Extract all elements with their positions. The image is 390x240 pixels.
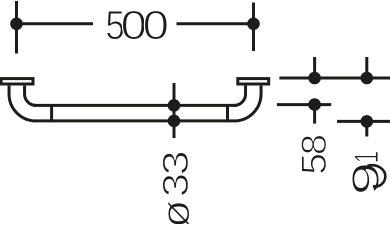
grab bar: tube inner wall right <box>234 86 245 106</box>
dimension 58: lower line <box>277 103 331 106</box>
svg-text:1: 1 <box>348 151 386 163</box>
dimension Ø33: top dot <box>168 99 181 112</box>
grab bar: tube outer wall <box>9 86 261 121</box>
svg-text:3: 3 <box>156 173 196 197</box>
dimension 500: left dot <box>10 18 23 31</box>
dimension 58: lower dot <box>308 98 321 111</box>
tick above 58 dot <box>313 57 316 78</box>
dimension 500: right segment <box>177 22 254 25</box>
dimension 500: left segment <box>17 22 94 25</box>
tick below 91 dot <box>365 121 368 136</box>
dimension 500: right dot <box>247 18 260 31</box>
tick above 91 dot <box>365 57 368 78</box>
svg-text:5: 5 <box>294 153 334 175</box>
grab bar: tube inner wall left <box>25 86 36 106</box>
grab bar: right weld joint line <box>226 104 229 122</box>
svg-text:ø: ø <box>155 200 198 224</box>
dimension Ø33: bottom dot <box>168 115 181 128</box>
dimension 91: lower line <box>337 120 390 123</box>
svg-text:0: 0 <box>143 3 169 48</box>
grab bar: right flange plate <box>238 79 269 84</box>
grab bar: left flange plate <box>1 79 33 84</box>
svg-text:3: 3 <box>155 150 196 175</box>
wall plane dot for 58 <box>308 72 321 85</box>
wall plane line (right) <box>279 77 390 80</box>
tick below 58 dot <box>313 105 316 124</box>
svg-text:8: 8 <box>294 134 333 155</box>
dimension Ø33: vertical line <box>173 83 176 138</box>
dimension 91: lower dot <box>361 115 374 128</box>
dimension 500: right extension line <box>252 3 255 52</box>
grab bar: tube top line <box>33 104 237 107</box>
label 91: tail of 9 <box>368 165 386 186</box>
wall plane dot for 91 <box>361 72 374 85</box>
grab bar: left weld joint line <box>50 104 53 122</box>
dimension 500: left extension line <box>15 1 18 54</box>
